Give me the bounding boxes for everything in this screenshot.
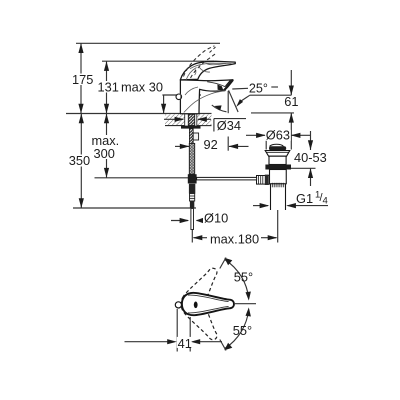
countertop reference line left — [66, 113, 212, 115]
dim max180 line — [194, 237, 208, 239]
threaded shank through countertop — [188, 114, 194, 125]
O10 left-tip — [196, 218, 203, 223]
350 down — [79, 198, 84, 208]
O34 label bracket — [214, 119, 246, 132]
text 41 — [177, 336, 192, 351]
handle inner line — [188, 295, 229, 302]
25deg left leader — [232, 87, 248, 90]
text 61 — [284, 94, 299, 109]
dim max300 vertical — [106, 114, 108, 178]
braided hose — [189, 143, 194, 174]
locknut — [265, 165, 291, 170]
countertop hatched slab left of hole — [165, 114, 185, 125]
svg-text:55°: 55° — [234, 270, 253, 285]
svg-text:61: 61 — [284, 94, 298, 109]
dim O10 line left — [171, 220, 188, 222]
175 up — [78, 43, 83, 53]
max180 ext right / waste centreline — [277, 210, 279, 243]
flange trapezoid — [265, 151, 290, 157]
G1 right-tip — [260, 203, 270, 208]
25deg underline — [250, 94, 291, 96]
dim 92 line left — [175, 145, 189, 147]
61 up — [289, 113, 294, 123]
dashed raised lever — [184, 46, 218, 78]
dashed handle rotated down 55deg — [177, 290, 224, 345]
solid handle top view — [182, 293, 234, 315]
svg-text:Ø34: Ø34 — [217, 118, 241, 133]
40-53 down — [308, 140, 313, 150]
ext segment along 55 axis bottom — [220, 340, 226, 351]
ball joint fitting — [257, 176, 270, 185]
arc 55 top — [225, 260, 249, 299]
dim O10 line right — [197, 220, 203, 222]
body below locknut — [270, 170, 287, 184]
O63 right-tip — [256, 133, 266, 138]
mounting nut — [181, 126, 201, 129]
centreline right of handle — [234, 303, 256, 305]
ref line 175 top — [76, 42, 220, 44]
svg-text:131: 131 — [98, 80, 119, 95]
O63 left-tip — [291, 133, 301, 138]
svg-text:25°: 25° — [249, 82, 268, 96]
text max. 300 — [91, 133, 122, 161]
dim G1 1/4 line right / underline — [288, 205, 329, 207]
dim 40-53 stem top — [310, 131, 312, 150]
svg-text:max 30: max 30 — [121, 80, 163, 95]
131 down — [104, 104, 109, 114]
svg-text:4: 4 — [323, 196, 328, 207]
92 left-tip at tick — [228, 144, 238, 149]
svg-text:G1: G1 — [296, 191, 313, 206]
tick spout centre ext — [227, 137, 229, 151]
175 down — [78, 104, 83, 114]
hose coupling — [188, 174, 197, 183]
body column and spout — [180, 80, 233, 114]
lever handle — [180, 61, 235, 80]
text O63 — [265, 128, 291, 143]
plug dark bar — [269, 146, 286, 150]
dashed handle rotated up 55deg — [177, 263, 224, 318]
svg-text:40-53: 40-53 — [294, 150, 327, 165]
dim 40-53 bottom ref — [291, 167, 316, 169]
spout inner contour — [208, 82, 228, 88]
dim 41 ext left — [176, 309, 178, 352]
waste upper body — [269, 156, 286, 164]
text 131 max 30 — [97, 80, 119, 95]
dim G1 1/4 line left — [253, 205, 268, 207]
G1 left-tip — [286, 203, 296, 208]
dim 131 vertical — [106, 61, 108, 113]
O34 arrow left — [164, 118, 211, 120]
countertop reference line right — [251, 112, 294, 114]
ext segment along 55 axis top — [220, 258, 226, 269]
dim O63 line — [246, 134, 265, 136]
hose end fitting lower — [190, 201, 194, 208]
svg-text:55°: 55° — [233, 323, 252, 338]
faucet body outline — [180, 61, 235, 113]
40-53 up — [308, 168, 313, 178]
aerator face dark band — [224, 80, 234, 91]
tailpiece — [271, 184, 286, 210]
max30 down — [161, 104, 166, 114]
aerator under shadow — [217, 84, 223, 90]
dim 40-53 stem bottom — [310, 168, 312, 186]
tailpiece thread collar — [272, 183, 283, 188]
61 down — [289, 86, 294, 96]
shank threads below nut — [189, 129, 193, 144]
svg-text:Ø63: Ø63 — [266, 128, 290, 143]
dim 61 stem top — [290, 70, 292, 95]
max30 ref line — [162, 94, 201, 96]
max180 left-tip — [193, 235, 203, 240]
outlet nipple block — [193, 133, 198, 140]
dim 41 ext right — [189, 317, 191, 352]
dim 175 vertical — [80, 43, 82, 113]
max30 arrow stem — [163, 95, 165, 114]
svg-text:175: 175 — [72, 72, 93, 87]
max300 down — [104, 168, 109, 178]
25deg leader right with arrowhead — [241, 95, 250, 101]
countertop slab outline — [165, 114, 212, 125]
svg-text:350: 350 — [69, 153, 90, 168]
O10 right-tip — [180, 218, 190, 223]
dim 41 line right — [200, 341, 223, 343]
hose end fitting ridged middle — [190, 194, 195, 202]
sketch inner curves — [184, 63, 232, 112]
O34 arrow right — [197, 117, 207, 122]
dim 41 line left — [125, 341, 169, 343]
text 175 — [72, 72, 94, 87]
svg-text:Ø10: Ø10 — [204, 210, 228, 225]
pull rod lower — [191, 209, 194, 230]
ref line hose end (350 bottom) — [73, 207, 196, 209]
small circle (spout from above) — [175, 302, 181, 308]
25deg arc left with arrowhead — [212, 105, 227, 112]
25deg right leader — [271, 86, 278, 88]
dim 350 vertical — [80, 114, 82, 209]
max180 right-tip — [268, 235, 278, 240]
svg-text:92: 92 — [204, 137, 218, 152]
350 up — [79, 114, 84, 124]
O63 ext left — [265, 140, 267, 150]
horizontal pull rod to ball joint — [197, 177, 257, 180]
handle centre dot — [194, 302, 198, 309]
countertop hatched slab right of hole — [197, 114, 212, 125]
max300 up — [104, 114, 109, 124]
ref line max300 bottom / pull rod arm — [95, 177, 189, 179]
text 92 — [203, 137, 220, 152]
25deg slanted stream line — [229, 90, 239, 112]
text O34 — [217, 118, 242, 133]
max180 ext left — [191, 230, 193, 243]
92 right-tip — [180, 144, 190, 149]
side knob on body — [176, 94, 182, 100]
hose end fitting upper — [189, 184, 195, 194]
pop-up waste dome cap — [270, 144, 284, 146]
svg-text:41: 41 — [178, 336, 192, 351]
dim 61 stem bottom — [290, 113, 292, 150]
svg-text:300: 300 — [94, 146, 115, 161]
dim 92 line right — [229, 145, 249, 147]
arc 55 bottom — [225, 310, 249, 349]
131 up — [104, 61, 109, 71]
svg-text:max.180: max.180 — [210, 232, 259, 247]
text 350 — [68, 153, 91, 168]
ref line 131 top — [102, 60, 214, 62]
spout vertical ref 25deg — [227, 91, 229, 113]
